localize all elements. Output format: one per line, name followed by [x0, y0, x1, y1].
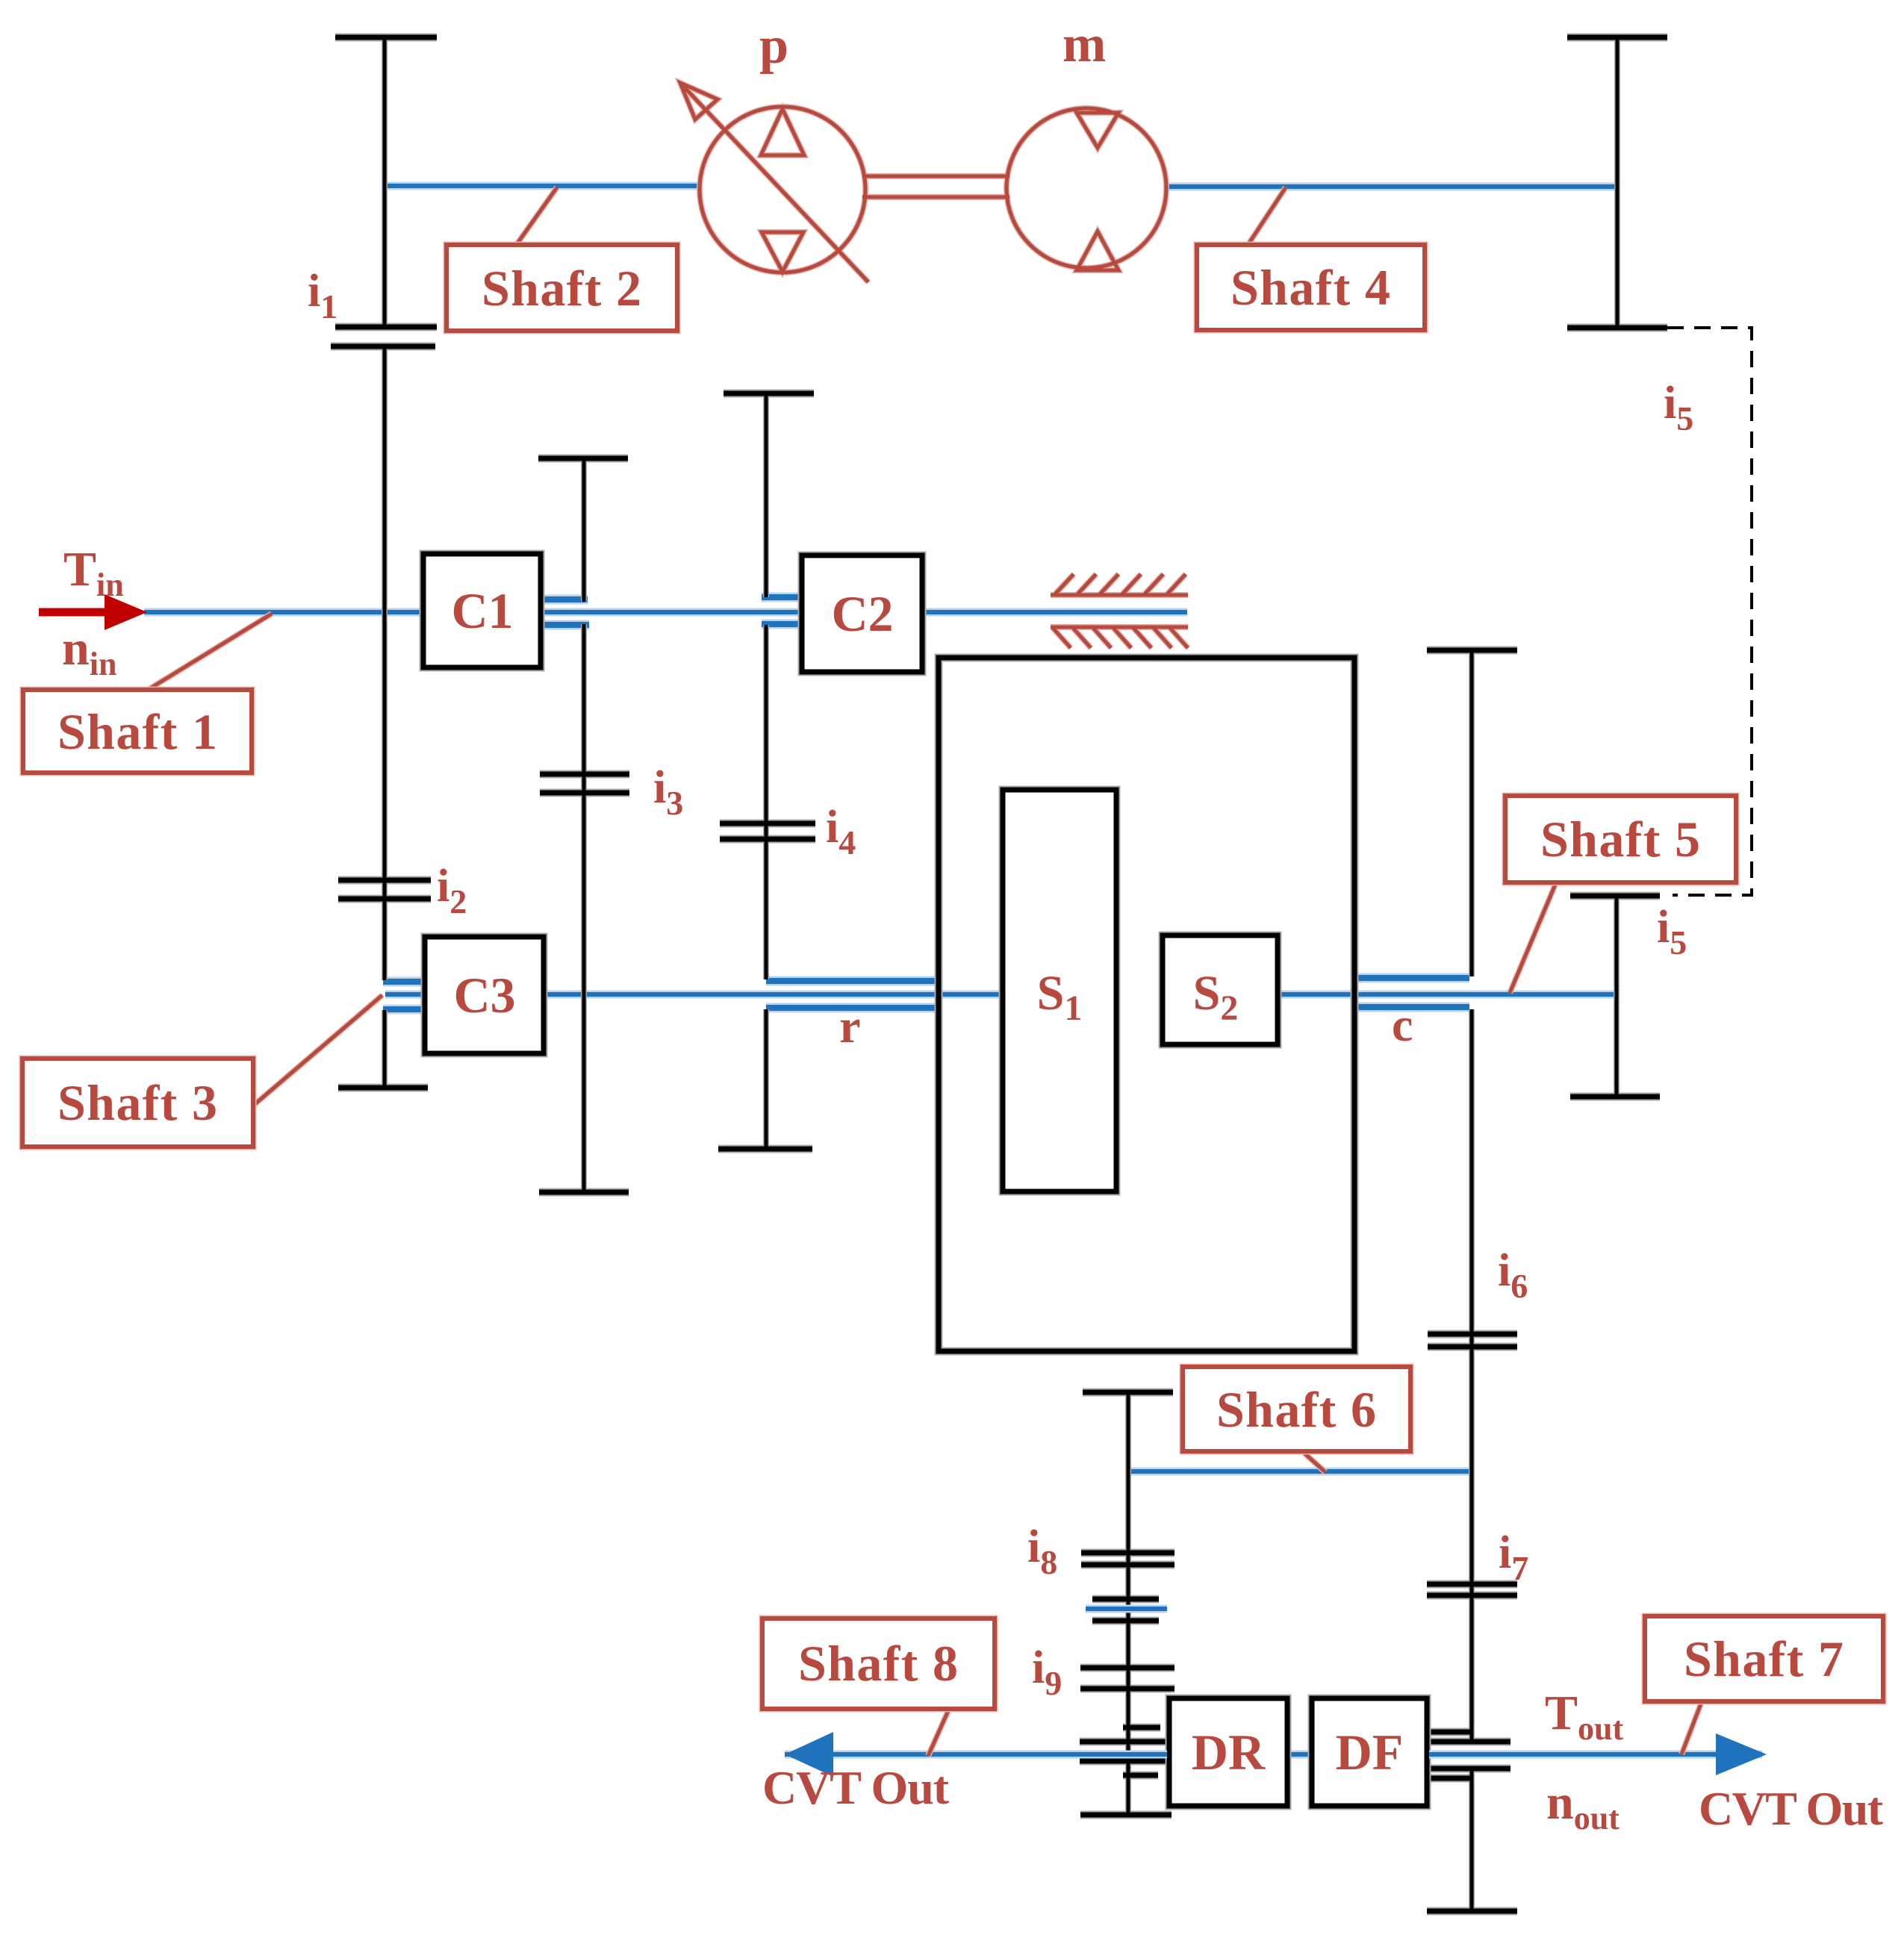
svg-text:m: m	[1063, 16, 1106, 73]
svg-text:i5: i5	[1657, 902, 1687, 962]
black halo pass	[331, 37, 1667, 1911]
svg-text:c: c	[1392, 998, 1413, 1051]
svg-text:nin: nin	[62, 621, 116, 682]
svg-text:DF: DF	[1336, 1724, 1404, 1780]
belt link i5 dashed line	[1667, 328, 1752, 895]
svg-text:i1: i1	[308, 266, 337, 325]
svg-text:DR: DR	[1192, 1724, 1266, 1780]
svg-text:CVT Out: CVT Out	[1699, 1782, 1884, 1835]
CVT out left blue arrow head	[785, 1732, 833, 1777]
black core pass	[331, 37, 1667, 1911]
svg-text:C1: C1	[451, 582, 513, 639]
svg-text:Tout: Tout	[1545, 1686, 1624, 1747]
svg-text:Shaft 5: Shaft 5	[1540, 811, 1700, 867]
svg-text:i5: i5	[1664, 378, 1693, 437]
svg-text:Shaft 6: Shaft 6	[1216, 1381, 1376, 1438]
svg-text:Shaft 8: Shaft 8	[798, 1635, 958, 1692]
svg-text:r: r	[839, 1000, 860, 1053]
svg-text:Shaft 2: Shaft 2	[482, 260, 641, 317]
svg-text:Shaft 7: Shaft 7	[1684, 1630, 1844, 1687]
svg-text:i9: i9	[1032, 1642, 1062, 1702]
svg-text:CVT Out: CVT Out	[762, 1761, 950, 1814]
input torque arrow Tin	[39, 608, 106, 617]
svg-text:Shaft 4: Shaft 4	[1231, 259, 1390, 316]
svg-text:nout: nout	[1546, 1775, 1620, 1836]
blue over pass	[1080, 1609, 1717, 1754]
red halo and core passes	[148, 83, 1702, 1756]
boxes halo and core	[423, 554, 1427, 1806]
svg-text:i6: i6	[1498, 1245, 1528, 1305]
blue core pass	[144, 186, 1762, 1754]
svg-text:i3: i3	[653, 762, 683, 822]
svg-text:C3: C3	[453, 967, 515, 1024]
svg-text:i2: i2	[437, 861, 467, 920]
svg-text:i4: i4	[826, 802, 856, 862]
svg-text:p: p	[759, 17, 788, 75]
svg-text:Tin: Tin	[63, 542, 124, 603]
svg-text:C2: C2	[831, 585, 893, 642]
svg-text:Shaft 3: Shaft 3	[57, 1074, 217, 1131]
svg-text:i8: i8	[1027, 1521, 1057, 1581]
CVT out right blue arrow head	[1716, 1733, 1767, 1775]
svg-text:i7: i7	[1499, 1527, 1528, 1587]
svg-text:Shaft 1: Shaft 1	[57, 703, 217, 760]
blue halo pass	[144, 186, 1762, 1754]
